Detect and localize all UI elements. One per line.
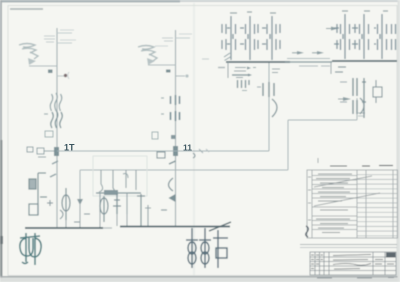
bracket device far left bbox=[29, 173, 47, 215]
plus marks x=50 bbox=[47, 200, 53, 206]
curve on feeder A bbox=[272, 99, 277, 117]
label right of blob bbox=[155, 45, 168, 47]
wire horizontal into branch2 y=65 bbox=[148, 64, 176, 66]
bay labels top bbox=[342, 10, 388, 12]
curve symbol x=64 y=212 bbox=[60, 210, 63, 219]
current transformer wavy group 1 bbox=[50, 93, 62, 111]
curve on feeder B bbox=[360, 98, 364, 114]
tie arrows bbox=[292, 52, 298, 54]
tie wire bbox=[285, 61, 332, 63]
wire x=357 riser bbox=[356, 98, 358, 120]
bay A3 cells bbox=[262, 16, 280, 60]
transformer T3 bbox=[199, 228, 211, 268]
small device + text left of junction bbox=[27, 147, 54, 157]
bus A bbox=[226, 61, 290, 63]
tie label text below bbox=[299, 65, 330, 67]
stub + label right y=38 bbox=[176, 37, 191, 39]
curve symbol on branch2 y=184 bbox=[169, 178, 174, 191]
breaker blob at branch2 junction bbox=[173, 146, 178, 156]
drop from bus B left end bbox=[330, 61, 332, 74]
below-bus B marks bbox=[335, 67, 346, 72]
svg-text:11: 11 bbox=[183, 143, 192, 153]
incoming line symbol blob left bbox=[19, 44, 38, 60]
arrow feeder x=80 bbox=[77, 199, 83, 205]
bay labels top bbox=[230, 12, 276, 13]
tick y=163 bbox=[169, 161, 176, 164]
drops to bus1 bbox=[65, 220, 67, 228]
cable end symbol left bbox=[28, 58, 36, 65]
feeder x=148 bbox=[147, 205, 149, 226]
transformer T1 (teal, bottom-left) bbox=[20, 233, 41, 265]
bay A1 cells bbox=[222, 16, 236, 60]
lines above title block bbox=[300, 244, 397, 246]
hook drop 4 bbox=[135, 170, 137, 190]
wire y=170 long bbox=[80, 169, 288, 171]
feeder B double bars group2 bbox=[353, 100, 357, 114]
incoming line symbol blob left of branch2 bbox=[138, 46, 157, 62]
tick on branch2 y=137 bbox=[171, 135, 176, 139]
ticks left of feeder B bbox=[340, 81, 347, 83]
ticks left of CT groups bbox=[161, 97, 164, 99]
dark stamp corner blob bbox=[386, 253, 396, 258]
load device right of transformers bbox=[213, 230, 228, 268]
PT bay drop below bus A bbox=[227, 62, 229, 78]
table text scribbles bbox=[316, 174, 352, 233]
CT bars group 2 branch2 bbox=[171, 111, 180, 121]
wire y=151 from branch1 to section A feeder bbox=[57, 150, 269, 152]
feeder A CT bars group bbox=[263, 82, 274, 97]
transformer T2 (bottom-middle left) bbox=[186, 228, 198, 268]
hook drop 1 bbox=[99, 170, 103, 192]
bay B4 partial bars at frame bbox=[392, 24, 396, 50]
bay B2 cells bbox=[352, 14, 369, 59]
bus B bbox=[332, 60, 397, 62]
bus 1 bbox=[25, 227, 103, 229]
stub + label right y=33 bbox=[57, 32, 72, 34]
entry arrow into section B bbox=[331, 27, 338, 31]
CT bars group 1 branch2 bbox=[171, 95, 180, 105]
hook drop 3 bbox=[125, 170, 127, 188]
diagonal strike 1 bbox=[314, 176, 372, 187]
arrow mark in PT text bbox=[247, 67, 251, 70]
fold crease vertical bbox=[193, 3, 195, 276]
drops below mini bus bbox=[99, 193, 101, 212]
disconnector tick y=163 bbox=[52, 161, 58, 164]
marks right of feeder A top bbox=[272, 69, 280, 73]
cable end symbol bbox=[147, 58, 155, 65]
left column row marks bbox=[308, 177, 311, 220]
flag symbol bottom of branch2 bbox=[169, 194, 176, 202]
marks on drops bbox=[114, 199, 120, 201]
value label under feeder B symbol bbox=[358, 112, 365, 114]
bay B3 cells bbox=[374, 14, 387, 59]
bay A2 cells bbox=[240, 16, 258, 60]
bay B1 cells bbox=[334, 14, 350, 59]
stub right y=76 bbox=[176, 75, 186, 77]
wire x=80 drop bbox=[79, 170, 81, 218]
wire branch1 vertical bbox=[56, 28, 58, 227]
fuse x=66 bbox=[62, 188, 70, 220]
junction devices at y=152-158 bbox=[157, 152, 195, 158]
arrow into feeder B symbol bbox=[343, 97, 351, 101]
svg-text:1Т: 1Т bbox=[64, 143, 75, 153]
small mark below bars bbox=[242, 90, 247, 92]
label left of bus A bbox=[218, 67, 225, 69]
feeder x=141 head bbox=[137, 194, 145, 226]
diagonal strike 2 bbox=[314, 193, 380, 206]
PT bay CT bars bbox=[238, 80, 250, 88]
table frame bbox=[307, 170, 398, 238]
title block scribbles bbox=[311, 255, 394, 270]
wire branch2 vertical bbox=[175, 30, 177, 226]
marks near x=80 bottom bbox=[74, 214, 90, 222]
label top-left of branch1 bbox=[44, 36, 55, 42]
bus 2 bbox=[120, 226, 230, 228]
junction blob at y=151 bbox=[54, 147, 59, 156]
right device cluster bbox=[373, 80, 382, 103]
wire y=120 from x288 to x357 bbox=[288, 119, 357, 121]
fuse x=104 bbox=[100, 196, 108, 222]
tie upper light wire bbox=[287, 58, 330, 60]
handwritten mark left of table bbox=[306, 226, 309, 237]
tick left of CT bbox=[44, 113, 48, 115]
table mid rules bbox=[312, 176, 357, 230]
tick y=176 bbox=[50, 174, 56, 177]
relay box on branch1 y=134 bbox=[45, 131, 53, 137]
relay box branch2 y=135 bbox=[152, 132, 158, 139]
ticks above table bbox=[317, 158, 319, 163]
labels top of branch2 bbox=[162, 38, 173, 41]
disconnector tick branch1 bbox=[48, 70, 53, 74]
second feeder line x=364 bbox=[362, 78, 366, 118]
table header text above frame bbox=[330, 165, 393, 168]
below-bus PT bay text rows bbox=[234, 68, 256, 78]
wire x=288 from y120 to y170 bbox=[287, 120, 289, 170]
disconnector tick branch2 bbox=[166, 70, 171, 73]
bus 2 end tick bbox=[209, 222, 231, 231]
stub + label right y=43 bbox=[57, 42, 72, 44]
mini bus y=193 bbox=[96, 192, 141, 194]
feeder B double bars group1 bbox=[353, 78, 357, 96]
wire horizontal into branch1 y=65 bbox=[29, 65, 57, 67]
faint enclosure box bbox=[93, 156, 147, 196]
current transformer wavy group 2 bbox=[51, 111, 63, 128]
dark underline row with arrow bbox=[232, 74, 248, 76]
wire feeder A down x=269 bbox=[268, 62, 270, 151]
table row rules right part bbox=[357, 175, 397, 236]
hatch marks above bus A left bay bbox=[224, 53, 231, 61]
stub right y=76 with label bbox=[57, 75, 64, 77]
hook drop 2 bbox=[111, 170, 115, 194]
ticks left bbox=[257, 86, 261, 88]
corner stamp line top-left bbox=[10, 8, 43, 10]
marks below title block bbox=[317, 277, 394, 280]
